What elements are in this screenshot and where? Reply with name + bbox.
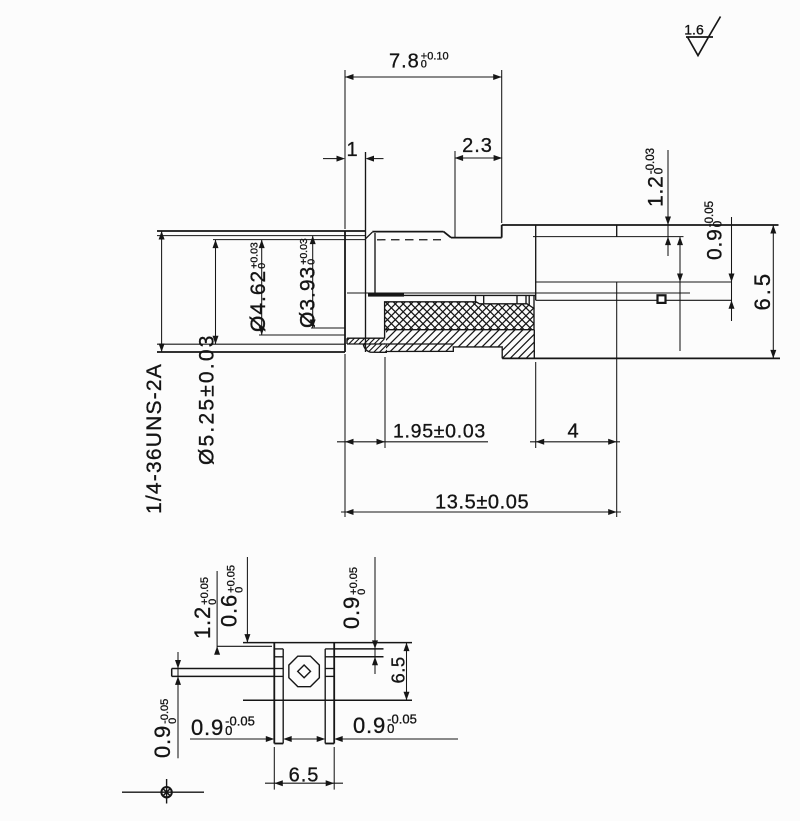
svg-text:6.5: 6.5 (289, 765, 320, 787)
right arm stub (334, 648, 383, 650)
dim 6.5 (bottom) (273, 747, 275, 790)
svg-text:13.5±0.05: 13.5±0.05 (435, 492, 529, 514)
svg-text:Ø5.25±0.03: Ø5.25±0.03 (196, 333, 219, 465)
right body inner lines (533, 236, 684, 238)
main view: left extension/silhouette horizontals (157, 230, 366, 232)
dim dia 3.93 (312, 236, 314, 328)
svg-text:0.9: 0.9 (704, 228, 727, 260)
svg-text:0: 0 (225, 723, 232, 738)
dim 1.95 +-0.03 (384, 357, 386, 448)
svg-text:0: 0 (306, 259, 318, 265)
flange line above knurl (404, 294, 536, 296)
flange dark bar (368, 293, 404, 297)
thread relief groove (365, 152, 367, 352)
right body top (502, 224, 779, 226)
svg-text:0: 0 (234, 587, 246, 593)
disc left face (501, 225, 503, 238)
svg-text:2.3: 2.3 (462, 135, 493, 157)
center octagon hole (289, 656, 319, 686)
dim 0.6 +0.05/0 (246, 557, 248, 643)
dim 2.3 (454, 151, 456, 237)
dim thread 1/4-36UNS-2A (161, 231, 163, 352)
svg-text:0: 0 (654, 168, 666, 174)
dim 0.9 -0.05/0 (bottom right) text (353, 712, 417, 739)
svg-text:1/4-36UNS-2A: 1/4-36UNS-2A (143, 363, 166, 514)
svg-text:6.5: 6.5 (388, 656, 409, 683)
dim 1 (323, 158, 337, 160)
svg-text:0.9: 0.9 (150, 725, 175, 758)
svg-text:0: 0 (256, 263, 268, 269)
svg-text:4: 4 (567, 421, 578, 443)
svg-text:0: 0 (713, 221, 725, 227)
teeth slots above knurl (475, 295, 477, 302)
svg-text:0: 0 (387, 721, 394, 736)
svg-text:1.2: 1.2 (190, 606, 215, 639)
svg-text:7.8: 7.8 (389, 51, 420, 73)
svg-text:0: 0 (167, 718, 179, 724)
dim 6.5 (bottom view right) (406, 643, 408, 701)
right body verticals (535, 225, 537, 300)
center barrel outline (372, 231, 443, 233)
svg-text:Ø3.93: Ø3.93 (297, 266, 320, 328)
dim 0.9 -0.05/0 (left) (177, 652, 179, 758)
svg-text:1.2: 1.2 (645, 175, 668, 207)
dim dia 4.62 (261, 240, 263, 335)
center diamond (298, 665, 311, 678)
svg-text:1.95±0.03: 1.95±0.03 (393, 421, 486, 443)
dim dia 5.25 (215, 240, 217, 345)
dim 0.9 -0.05/0 (right) (731, 217, 733, 321)
dim 6.5 (right) (772, 225, 774, 358)
dim 7.8 +0.10/0 (344, 70, 346, 229)
svg-text:0.9: 0.9 (353, 713, 386, 738)
svg-text:1.6: 1.6 (684, 22, 704, 38)
dim 0.9 -0.05/0 (bottom center) leader (190, 738, 267, 740)
neck top line (451, 237, 502, 239)
left arm (172, 668, 275, 670)
dim 4 (535, 362, 537, 448)
target crosshair (161, 787, 171, 797)
svg-text:0: 0 (356, 589, 368, 595)
dim 1.2 -0.03/0 (667, 150, 669, 256)
aux arrows at 680 (677, 237, 683, 246)
inner tabs (274, 648, 283, 650)
svg-text:1: 1 (346, 139, 357, 161)
part left face (344, 231, 346, 352)
dim 0.9 +0.05/0 (top right) (374, 557, 376, 674)
svg-text:Ø4.62: Ø4.62 (247, 270, 270, 332)
small square marker (658, 295, 666, 303)
svg-text:0: 0 (421, 59, 427, 71)
leg bottom caps (274, 743, 283, 745)
right body bottom (502, 357, 780, 359)
svg-text:0.9: 0.9 (339, 596, 364, 629)
dim 1.2 +0.05/0 (bottom view) (216, 571, 218, 652)
svg-text:0.6: 0.6 (217, 594, 242, 627)
svg-text:6.5: 6.5 (750, 271, 775, 311)
hidden line (bore) (377, 239, 441, 241)
bottom view body outline (243, 642, 412, 644)
dim 13.5 +-0.05 (344, 354, 346, 517)
svg-text:0.9: 0.9 (191, 715, 224, 740)
